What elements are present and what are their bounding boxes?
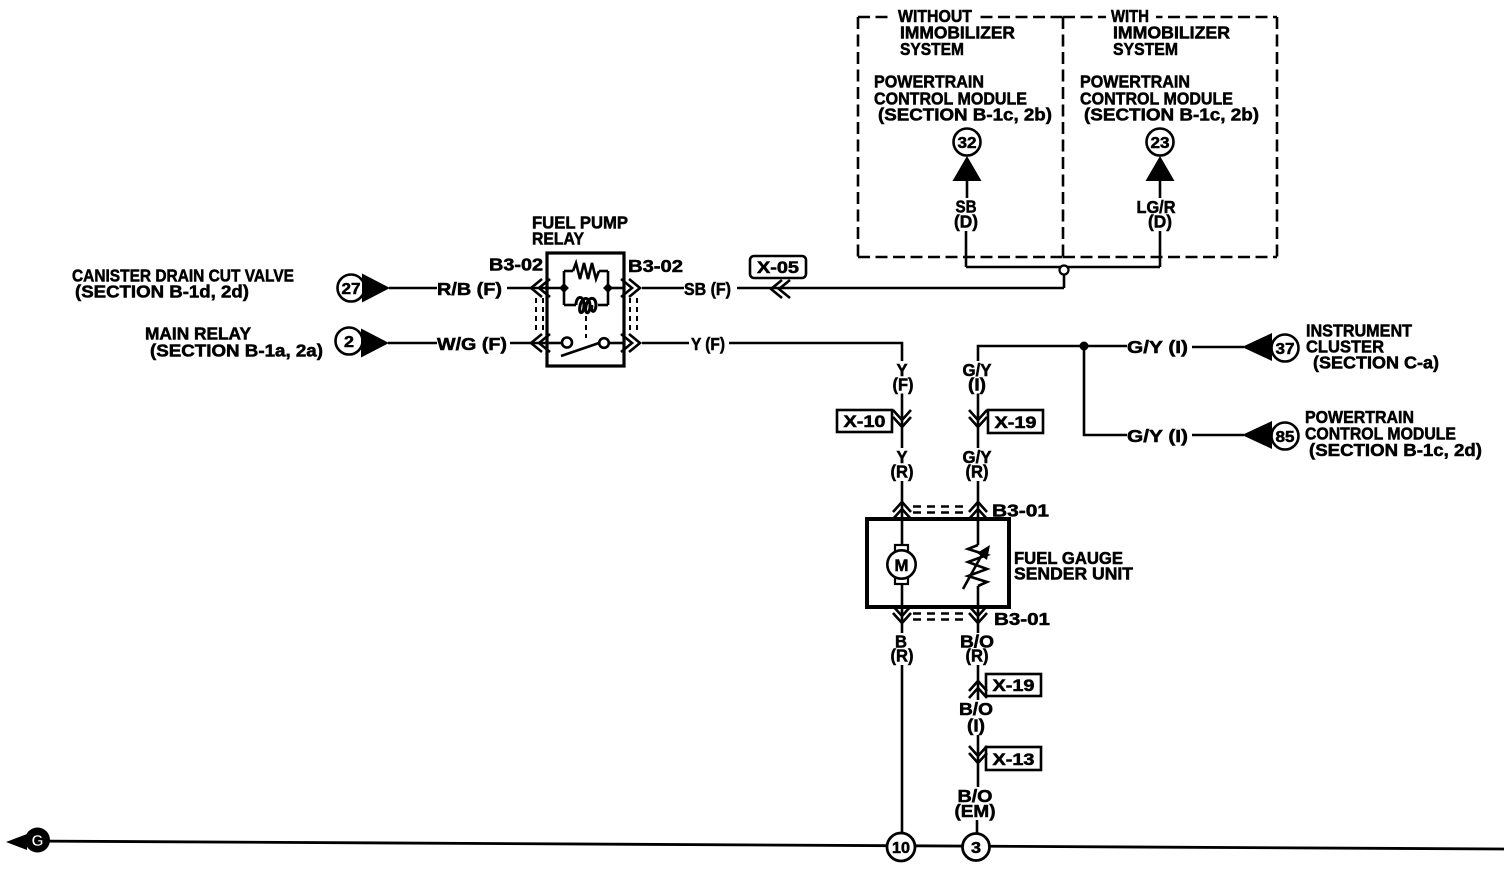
label G/Y (R) <box>963 447 992 482</box>
svg-text:X-05: X-05 <box>757 258 799 277</box>
svg-text:(R): (R) <box>891 462 914 482</box>
connector dashed bundle below sender <box>913 614 966 620</box>
svg-text:(D): (D) <box>954 212 978 232</box>
svg-text:RELAY: RELAY <box>532 228 584 248</box>
svg-text:SYSTEM: SYSTEM <box>900 39 964 59</box>
connector chevron at relay left bottom <box>531 334 550 352</box>
svg-text:G/Y (I): G/Y (I) <box>1127 426 1188 446</box>
connector X-19 box <box>988 410 1043 433</box>
svg-text:(SECTION B-1c, 2d): (SECTION B-1c, 2d) <box>1309 440 1482 460</box>
pin 85 circle <box>1272 423 1299 450</box>
connector chevron at relay right bottom <box>621 334 640 352</box>
svg-text:X-19: X-19 <box>995 413 1037 432</box>
dashed box WITHOUT IMMOBILIZER SYSTEM <box>858 17 1063 257</box>
svg-text:(EM): (EM) <box>955 801 996 821</box>
wire relay internal bottom <box>547 342 624 345</box>
label G/Y (I) vertical <box>963 360 992 395</box>
label B/O (R) <box>960 632 994 666</box>
svg-text:27: 27 <box>342 281 361 298</box>
svg-text:3: 3 <box>971 840 981 857</box>
connector chevron X-19 lower <box>969 681 987 698</box>
fuel gauge sender unit box <box>867 519 1009 607</box>
wire from junction down to PCM 85 <box>1084 346 1127 435</box>
wire B/O (EM) to ground <box>976 820 979 834</box>
label INSTRUMENT CLUSTER (SECTION C-a) <box>1306 321 1439 373</box>
arrow up to pin 23 <box>1146 156 1175 181</box>
wire Y through X-10 <box>901 394 904 449</box>
relay coil <box>576 298 596 313</box>
wire from junction down to SB (F) run <box>1063 275 1066 289</box>
svg-text:M: M <box>895 556 909 575</box>
connector X-13 box <box>986 747 1041 770</box>
wire G/Y (R) into sender <box>977 481 980 519</box>
label WITHOUT IMMOBILIZER SYSTEM <box>893 6 1015 59</box>
pin 32 circle <box>954 129 981 156</box>
label CANISTER DRAIN CUT VALVE (SECTION B-1d, 2d) <box>72 266 294 302</box>
wire from resistor to box bottom <box>977 586 980 605</box>
svg-text:(F): (F) <box>893 375 914 395</box>
dashed box WITH IMMOBILIZER SYSTEM <box>1063 17 1277 257</box>
wire W/G (F) <box>388 342 437 345</box>
svg-text:B3-02: B3-02 <box>489 255 543 275</box>
wire B/O through X-19 <box>977 665 980 700</box>
node junction G/Y <box>1080 342 1089 351</box>
connector dashed bundle right of relay <box>630 298 637 334</box>
svg-text:SENDER UNIT: SENDER UNIT <box>1014 564 1133 584</box>
svg-text:X-19: X-19 <box>993 676 1035 695</box>
svg-text:(R): (R) <box>966 646 989 666</box>
wire to instrument cluster arrow <box>1192 346 1244 349</box>
relay switch lever <box>561 343 599 356</box>
node relay coil right <box>603 283 613 293</box>
motor M fuel pump <box>887 545 915 584</box>
connector dashed bundle above sender <box>913 507 966 513</box>
variable resistor sender <box>963 545 987 589</box>
label WITH IMMOBILIZER SYSTEM <box>1106 6 1230 59</box>
node relay coil left <box>559 283 569 293</box>
label POWERTRAIN CONTROL MODULE (SECTION B-1c, 2b) left <box>874 72 1052 125</box>
wire into relay switch <box>510 342 547 345</box>
arrowhead of sender resistor <box>977 545 990 560</box>
connector X-05 box <box>750 256 806 278</box>
wire B to ground <box>901 665 904 834</box>
wire joining SB(D) and LG/R(D) <box>966 266 1160 269</box>
svg-text:W/G (F): W/G (F) <box>437 334 507 354</box>
resistor in relay <box>573 263 599 279</box>
svg-text:X-10: X-10 <box>844 412 886 431</box>
svg-text:37: 37 <box>1276 341 1295 358</box>
relay actuator dashed link <box>585 316 587 338</box>
wire Y (F) to corner <box>729 343 902 361</box>
connector chevron X-05 <box>771 280 790 298</box>
wire relay internal top <box>547 287 624 290</box>
wire G/Y (I) horizontal <box>978 346 1127 361</box>
svg-text:Y (F): Y (F) <box>691 334 725 354</box>
wire SB (F) <box>642 287 684 290</box>
svg-text:(SECTION B-1a, 2a): (SECTION B-1a, 2a) <box>150 341 323 361</box>
svg-text:2: 2 <box>344 334 354 351</box>
label B (R) <box>891 632 914 666</box>
svg-text:SYSTEM: SYSTEM <box>1113 39 1178 59</box>
svg-text:(R): (R) <box>891 646 914 666</box>
label POWERTRAIN CONTROL MODULE (SECTION B-1c, 2d) <box>1305 407 1482 460</box>
wire G/Y through X-19 <box>977 394 980 449</box>
wire SB (D) <box>966 180 967 267</box>
arrow right from pin 2 <box>361 329 389 358</box>
svg-text:(SECTION B-1c, 2b): (SECTION B-1c, 2b) <box>878 105 1052 125</box>
svg-text:(SECTION B-1c, 2b): (SECTION B-1c, 2b) <box>1084 105 1259 125</box>
pin 2 circle <box>336 328 363 355</box>
svg-text:23: 23 <box>1151 135 1170 152</box>
wire B/O through X-13 <box>977 735 980 787</box>
wire LG/R (D) <box>1159 180 1162 267</box>
connector chevron below sender right <box>969 606 987 623</box>
wire into motor <box>901 521 904 546</box>
svg-text:SB (F): SB (F) <box>684 279 731 299</box>
label SB (D) <box>954 197 978 232</box>
svg-text:R/B (F): R/B (F) <box>437 279 502 299</box>
wire B below sender <box>901 607 904 633</box>
connector chevron below sender left <box>893 606 911 623</box>
node open junction <box>1060 266 1069 275</box>
svg-text:X-13: X-13 <box>993 750 1035 769</box>
wire SB (F) to junction <box>737 287 1064 290</box>
svg-text:(SECTION C-a): (SECTION C-a) <box>1313 353 1439 373</box>
connector X-19 lower box <box>986 674 1041 696</box>
pin 37 circle <box>1272 335 1299 362</box>
arrow right from pin 27 <box>362 274 390 303</box>
wire R/B (F) <box>389 287 437 290</box>
pin 23 circle <box>1147 129 1174 156</box>
wire Y (F) horizontal <box>642 342 689 345</box>
label FUEL PUMP RELAY <box>532 212 628 248</box>
label B/O (I) <box>959 699 993 736</box>
svg-text:(R): (R) <box>966 462 989 482</box>
svg-text:B3-01: B3-01 <box>994 609 1050 629</box>
connector X-10 box <box>837 410 892 432</box>
arrow up to pin 32 <box>953 156 982 181</box>
label Y (F) vertical <box>893 360 914 395</box>
connector chevron X-13 <box>969 746 987 763</box>
svg-text:G: G <box>32 833 44 850</box>
wire to PCM arrow <box>1192 434 1244 437</box>
connector chevron at relay left top <box>531 279 550 297</box>
ground pin 3 circle <box>963 834 990 861</box>
ground pin 10 circle <box>887 833 915 861</box>
svg-text:(SECTION B-1d, 2d): (SECTION B-1d, 2d) <box>75 282 249 302</box>
relay switch contact right <box>599 338 609 348</box>
label B/O (EM) <box>955 786 996 821</box>
connector chevron above sender right <box>969 502 987 519</box>
arrow left to pin 37 <box>1242 333 1272 361</box>
connector chevron at relay right top <box>621 279 640 297</box>
arrow left to pin 85 <box>1242 421 1272 449</box>
connector chevron X-19 <box>969 410 987 427</box>
wire Y (R) into sender <box>901 481 904 519</box>
connector chevron X-10 <box>893 410 911 427</box>
svg-text:B3-02: B3-02 <box>628 256 683 276</box>
connector dashed bundle left of relay <box>536 298 543 334</box>
wire from motor to box bottom <box>901 584 904 605</box>
svg-text:85: 85 <box>1276 429 1295 446</box>
svg-text:(I): (I) <box>967 716 985 736</box>
ground bus wire <box>24 841 1504 849</box>
relay switch contact left <box>562 338 572 348</box>
label POWERTRAIN CONTROL MODULE (SECTION B-1c, 2b) right <box>1080 72 1259 125</box>
svg-text:G/Y (I): G/Y (I) <box>1127 337 1188 357</box>
label Y (R) <box>891 447 914 482</box>
svg-text:32: 32 <box>958 135 977 152</box>
relay box <box>547 253 624 366</box>
svg-text:(D): (D) <box>1148 212 1172 232</box>
label LG/R (D) <box>1137 197 1176 232</box>
wire into sender resistor <box>977 521 980 545</box>
pin 27 circle <box>338 275 365 302</box>
label MAIN RELAY (SECTION B-1a, 2a) <box>145 324 323 361</box>
wire into relay pin <box>507 287 547 290</box>
label FUEL GAUGE SENDER UNIT <box>1014 548 1133 584</box>
svg-text:10: 10 <box>892 840 910 857</box>
wire B/O below sender <box>977 607 980 633</box>
ground symbol G <box>6 828 50 853</box>
connector chevron above sender left <box>893 502 911 519</box>
relay parallel branch frame <box>564 271 608 305</box>
svg-text:(I): (I) <box>968 375 986 395</box>
